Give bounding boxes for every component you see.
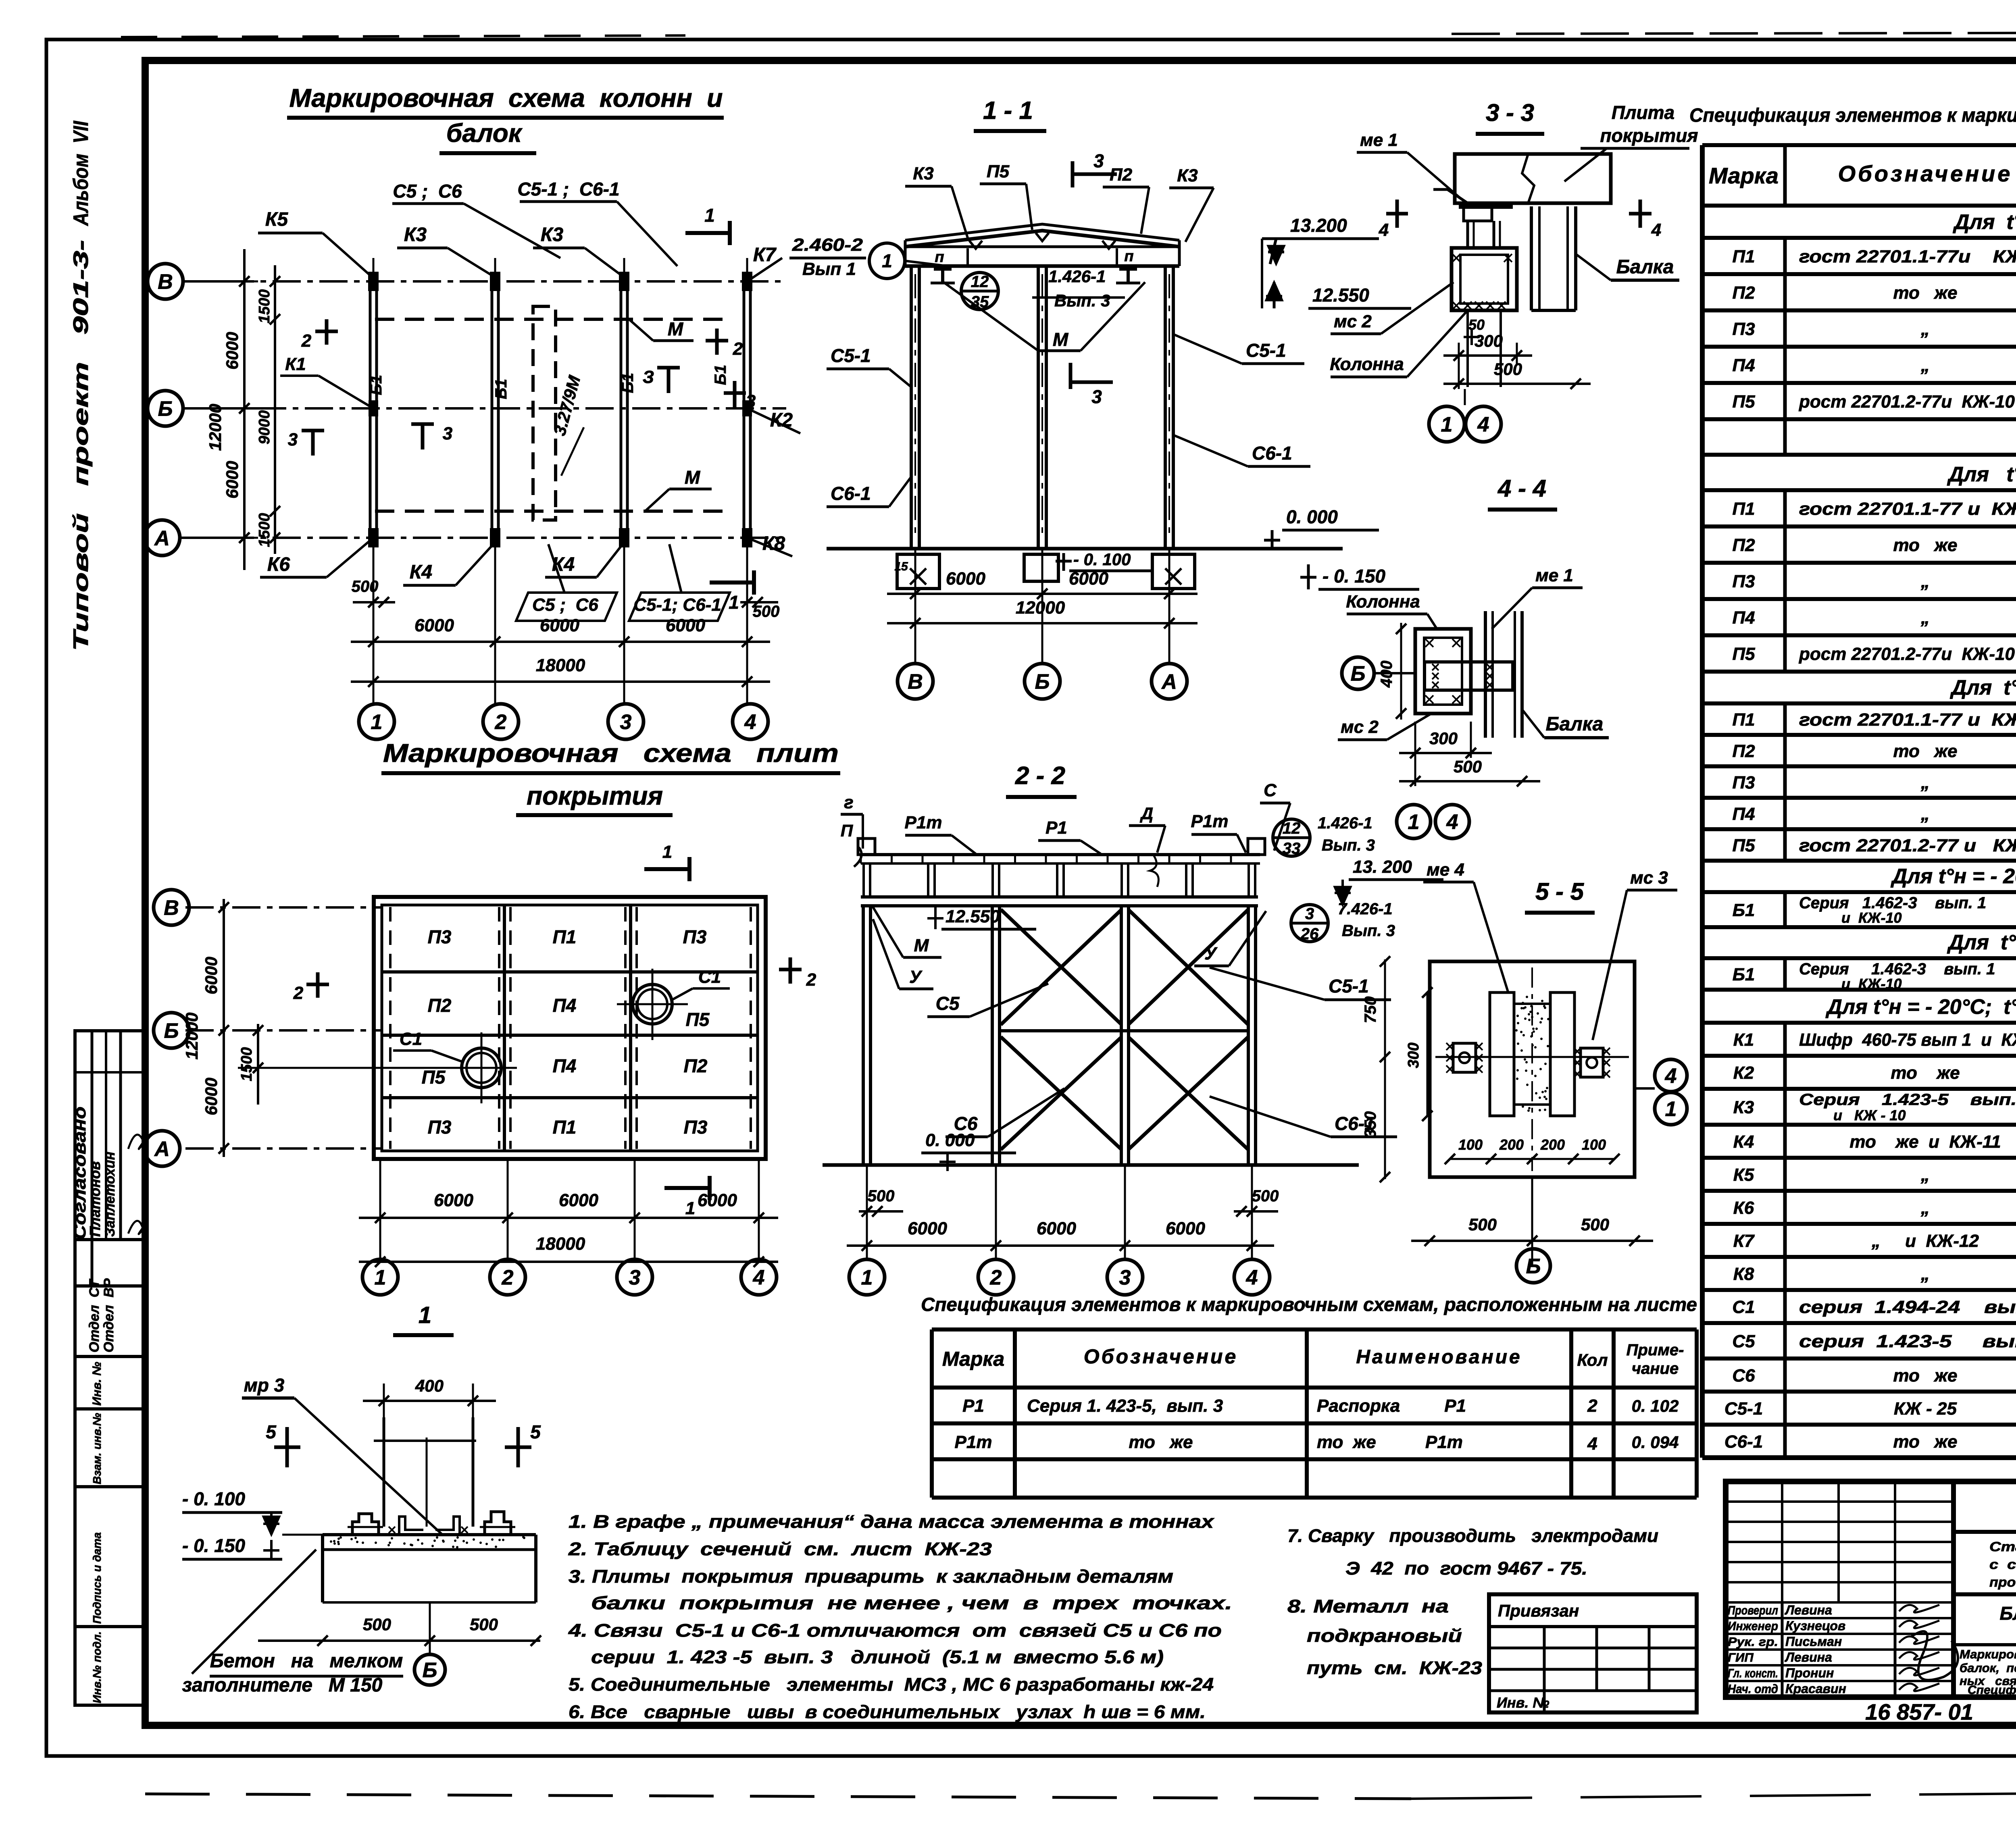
svg-text:Блок микрофильтров: Блок микрофильтров: [2000, 1603, 2016, 1624]
svg-text:К5: К5: [265, 209, 289, 230]
svg-text:Спецификация элементов к марки: Спецификация элементов к маркировочным с…: [1689, 105, 2016, 126]
svg-text:П3: П3: [428, 926, 452, 947]
svg-text:Письман: Письман: [1785, 1634, 1842, 1649]
svg-text:Серия 1. 423-5, вып. 3: Серия 1. 423-5, вып. 3: [1027, 1396, 1223, 1416]
svg-text:2 - 2: 2 - 2: [1015, 762, 1065, 790]
svg-text:3: 3: [1305, 905, 1314, 923]
svg-text:Гл. конст.: Гл. конст.: [1728, 1666, 1778, 1680]
svg-text:Д: Д: [1140, 804, 1153, 823]
svg-text:13.200: 13.200: [1290, 215, 1347, 236]
svg-text:серия 1.423-5 вып. 3: серия 1.423-5 вып. 3: [1799, 1332, 2016, 1351]
svg-text:13. 200: 13. 200: [1353, 857, 1412, 877]
svg-text:С5-1: С5-1: [831, 345, 871, 366]
svg-text:500: 500: [1252, 1187, 1279, 1205]
svg-text:П2: П2: [428, 995, 452, 1016]
svg-text:4: 4: [1587, 1434, 1597, 1454]
svg-text:4: 4: [1651, 220, 1661, 240]
svg-text:1: 1: [1665, 1098, 1677, 1121]
svg-text:12000: 12000: [1016, 598, 1065, 618]
svg-text:Для t°н = - 20°С; t°н = - 30°: Для t°н = - 20°С; t°н = - 30°С; t°н = - …: [1825, 995, 2016, 1019]
svg-text:3: 3: [1119, 1266, 1131, 1290]
svg-text:С6: С6: [1732, 1366, 1755, 1386]
svg-text:Колонна: Колонна: [1330, 354, 1404, 374]
svg-text:500: 500: [1494, 360, 1522, 379]
svg-text:300: 300: [1429, 729, 1458, 748]
svg-text:серии 1. 423 -5 вып. 3 дли: серии 1. 423 -5 вып. 3 длиной (5.1 м вме…: [591, 1647, 1164, 1667]
svg-text:К1: К1: [285, 354, 306, 374]
svg-text:П5: П5: [1732, 644, 1755, 664]
svg-text:У: У: [1204, 944, 1218, 963]
svg-text:Маркировочные схемы, колонн,: Маркировочные схемы, колонн,: [1960, 1647, 2016, 1661]
svg-text:А: А: [154, 527, 170, 550]
svg-text:производительностью 20 тыс. м: производительностью 20 тыс. м³/сутки с м…: [1989, 1575, 2016, 1590]
svg-text:Наименование: Наименование: [1356, 1346, 1522, 1368]
svg-text:2.460-2: 2.460-2: [792, 235, 863, 255]
svg-text:5 - 5: 5 - 5: [1535, 878, 1585, 905]
svg-text:2: 2: [293, 983, 304, 1003]
svg-text:„: „: [1920, 319, 1930, 339]
svg-text:П: П: [841, 821, 853, 840]
svg-text:К4: К4: [410, 562, 432, 583]
svg-text:26: 26: [1300, 925, 1319, 943]
svg-text:1: 1: [861, 1266, 873, 1290]
svg-text:С5-1 ; С6-1: С5-1 ; С6-1: [517, 179, 619, 200]
svg-text:то же: то же: [1893, 283, 1958, 303]
svg-text:0. 094: 0. 094: [1632, 1433, 1679, 1452]
svg-text:1: 1: [371, 711, 383, 734]
svg-text:Б: Б: [1526, 1255, 1541, 1278]
svg-text:то же: то же: [1129, 1432, 1193, 1452]
svg-text:К3: К3: [913, 164, 934, 183]
svg-text:12.550: 12.550: [1312, 285, 1369, 306]
svg-text:П1: П1: [553, 926, 577, 947]
svg-text:Обозначение: Обозначение: [1838, 161, 2013, 186]
svg-text:15: 15: [894, 560, 908, 573]
svg-text:Инв. №: Инв. №: [90, 1362, 104, 1406]
svg-text:Б1: Б1: [619, 373, 637, 393]
svg-text:6000: 6000: [946, 569, 985, 589]
svg-text:1500: 1500: [238, 1047, 255, 1082]
svg-text:1 - 1: 1 - 1: [983, 97, 1033, 125]
svg-text:мс 3: мс 3: [1630, 868, 1668, 888]
svg-text:П3: П3: [1732, 773, 1755, 793]
svg-text:Б1: Б1: [1733, 965, 1755, 984]
svg-text:Р1т: Р1т: [955, 1432, 992, 1452]
svg-text:рост 22701.2-77и КЖ-10: рост 22701.2-77и КЖ-10: [1799, 644, 2015, 664]
svg-text:1: 1: [662, 842, 672, 862]
svg-text:Шифр 460-75 вып 1 и КЖ-10: Шифр 460-75 вып 1 и КЖ-10: [1799, 1030, 2016, 1050]
svg-text:Красавин: Красавин: [1785, 1681, 1846, 1696]
svg-text:2: 2: [806, 970, 816, 990]
svg-text:300: 300: [1475, 331, 1503, 350]
svg-text:Инженер: Инженер: [1728, 1619, 1778, 1633]
svg-text:балок, подвесных путей, верт: балок, подвесных путей, вертикаль-: [1960, 1661, 2016, 1675]
svg-text:Вып. 3: Вып. 3: [1322, 836, 1375, 854]
svg-text:„ и КЖ-12: „ и КЖ-12: [1871, 1231, 1979, 1251]
svg-text:1: 1: [419, 1302, 431, 1328]
svg-text:„: „: [1920, 572, 1930, 591]
svg-text:А: А: [154, 1138, 170, 1161]
svg-text:6000: 6000: [666, 616, 705, 635]
svg-text:400: 400: [1378, 661, 1395, 688]
svg-text:4. Связи С5-1 и С6-1 отличают: 4. Связи С5-1 и С6-1 отличаются от связе…: [568, 1620, 1222, 1641]
svg-text:то же: то же: [1891, 1063, 1960, 1083]
svg-text:6000: 6000: [540, 616, 579, 635]
svg-text:п: п: [1124, 248, 1133, 265]
svg-text:6000: 6000: [908, 1219, 947, 1238]
svg-text:С1: С1: [698, 967, 721, 987]
svg-text:0. 000: 0. 000: [1286, 506, 1338, 527]
svg-text:6000: 6000: [1037, 1219, 1076, 1238]
svg-text:400: 400: [415, 1376, 444, 1395]
svg-text:Отдел СТ: Отдел СТ: [87, 1278, 102, 1352]
svg-text:гост 22701.1-77 и КЖ-10: гост 22701.1-77 и КЖ-10: [1799, 499, 2016, 519]
svg-text:К4: К4: [1733, 1132, 1754, 1152]
svg-text:Для t°н = - 40°С: Для t°н = - 40°С: [1947, 931, 2016, 954]
svg-text:Распорка Р1: Распорка Р1: [1317, 1396, 1466, 1416]
svg-text:Серия 1.423-5 вып. 1: Серия 1.423-5 вып. 1: [1799, 1091, 2016, 1109]
svg-text:4: 4: [753, 1266, 765, 1290]
svg-text:С5 ; С6: С5 ; С6: [393, 181, 462, 202]
svg-text:18000: 18000: [536, 655, 585, 675]
svg-text:- 0. 100: - 0. 100: [182, 1488, 245, 1509]
svg-text:2: 2: [301, 331, 312, 351]
svg-text:П4: П4: [553, 1055, 577, 1076]
svg-text:К6: К6: [267, 554, 290, 575]
svg-text:П3: П3: [684, 1117, 708, 1138]
svg-text:то же: то же: [1893, 1432, 1958, 1452]
svg-text:12000: 12000: [182, 1013, 201, 1060]
svg-text:4: 4: [1477, 413, 1489, 437]
svg-text:А: А: [1161, 670, 1177, 694]
svg-text:Типовой проект 901-3-: Типовой проект 901-3-: [69, 240, 93, 651]
svg-text:1.426-1: 1.426-1: [1318, 814, 1372, 832]
svg-text:Подпись и дата: Подпись и дата: [91, 1532, 103, 1624]
svg-text:П2: П2: [684, 1055, 708, 1076]
svg-text:33: 33: [1283, 840, 1301, 857]
svg-text:2: 2: [495, 711, 507, 734]
svg-text:П1: П1: [1732, 710, 1755, 730]
svg-text:С5-1: С5-1: [1246, 340, 1286, 361]
svg-text:У: У: [909, 967, 923, 987]
svg-text:то же Р1т: то же Р1т: [1317, 1432, 1463, 1452]
svg-text:Кол: Кол: [1577, 1350, 1608, 1369]
svg-text:Спецификация элементов к марки: Спецификация элементов к маркировочным с…: [921, 1294, 1697, 1315]
svg-text:чание: чание: [1632, 1360, 1679, 1377]
svg-text:Приме-: Приме-: [1627, 1341, 1684, 1359]
svg-text:П3: П3: [683, 926, 707, 947]
svg-text:С5-1: С5-1: [1329, 976, 1369, 997]
svg-text:В: В: [158, 270, 173, 294]
svg-text:Р1: Р1: [962, 1396, 984, 1416]
svg-text:Привязан: Привязан: [1498, 1601, 1579, 1620]
svg-text:1: 1: [882, 250, 892, 271]
svg-text:Бетон на мелком: Бетон на мелком: [210, 1650, 403, 1672]
svg-text:4: 4: [1246, 1266, 1258, 1290]
svg-text:С5-1: С5-1: [1724, 1399, 1763, 1419]
svg-text:Альбом VII: Альбом VII: [69, 121, 93, 227]
svg-text:500: 500: [363, 1615, 391, 1634]
svg-text:заполнителе М 150: заполнителе М 150: [182, 1675, 383, 1696]
svg-text:„: „: [1920, 1165, 1930, 1185]
svg-text:4 - 4: 4 - 4: [1497, 475, 1546, 502]
svg-text:1: 1: [685, 1198, 695, 1218]
svg-text:К3: К3: [541, 224, 564, 245]
svg-text:Заплетохин: Заплетохин: [102, 1152, 118, 1237]
svg-text:то же: то же: [1893, 1366, 1958, 1386]
svg-text:П3: П3: [1732, 572, 1755, 591]
svg-text:Р1: Р1: [1045, 818, 1067, 838]
svg-text:К1: К1: [1733, 1030, 1754, 1050]
svg-text:Б1: Б1: [367, 375, 385, 395]
svg-text:подкрановый: подкрановый: [1307, 1625, 1462, 1646]
svg-text:гост 22701.2-77 и КЖ-10: гост 22701.2-77 и КЖ-10: [1799, 836, 2016, 855]
svg-text:Инв. №: Инв. №: [1497, 1694, 1549, 1711]
svg-text:К3: К3: [404, 224, 427, 245]
svg-text:6. Все сварные швы в соед: 6. Все сварные швы в соединительных узла…: [569, 1702, 1206, 1722]
svg-text:3: 3: [443, 424, 452, 443]
svg-text:В: В: [164, 897, 179, 920]
svg-text:6000: 6000: [559, 1190, 598, 1210]
svg-text:Левина: Левина: [1785, 1603, 1832, 1617]
svg-text:П5: П5: [686, 1009, 710, 1030]
svg-text:гост 22701.1-77 и КЖ-10: гост 22701.1-77 и КЖ-10: [1799, 710, 2016, 730]
svg-text:- 0. 150: - 0. 150: [182, 1535, 245, 1556]
svg-text:6000: 6000: [1166, 1219, 1205, 1238]
svg-text:Б: Б: [1351, 662, 1366, 686]
svg-text:Согласовано: Согласовано: [70, 1107, 89, 1240]
svg-text:путь см. КЖ-23: путь см. КЖ-23: [1307, 1658, 1482, 1678]
svg-text:12000: 12000: [206, 404, 225, 451]
svg-text:Марка: Марка: [1709, 163, 1779, 188]
svg-text:П4: П4: [1732, 804, 1755, 824]
svg-text:„: „: [1920, 356, 1930, 375]
svg-text:1500: 1500: [256, 513, 273, 547]
svg-text:Нач. отд: Нач. отд: [1728, 1682, 1778, 1696]
svg-text:1: 1: [704, 205, 715, 226]
svg-text:Для t°н = - 40°С: Для t°н = - 40°С: [1950, 676, 2016, 699]
svg-text:и КЖ-10: и КЖ-10: [1841, 909, 1902, 926]
svg-text:покрытия: покрытия: [1600, 125, 1698, 146]
svg-text:3: 3: [288, 430, 298, 449]
svg-text:с содержанием взвешенных ве: с содержанием взвешенных веществ до 2500…: [1989, 1557, 2016, 1572]
svg-text:6000: 6000: [202, 1078, 221, 1115]
svg-text:С5: С5: [1732, 1332, 1755, 1351]
svg-text:Балка: Балка: [1616, 256, 1674, 278]
svg-text:1500: 1500: [256, 289, 273, 324]
svg-text:В: В: [908, 670, 923, 694]
svg-text:С6-1: С6-1: [831, 483, 871, 504]
svg-text:Обозначение: Обозначение: [1084, 1345, 1238, 1368]
svg-text:Вып 1: Вып 1: [802, 259, 856, 279]
svg-text:12: 12: [1283, 820, 1301, 837]
svg-text:Взам. инв.№: Взам. инв.№: [91, 1413, 103, 1484]
svg-text:Б: Б: [164, 1019, 179, 1043]
svg-text:500: 500: [1454, 757, 1482, 776]
svg-text:500: 500: [470, 1615, 498, 1634]
svg-text:Б: Б: [1035, 670, 1050, 694]
svg-text:С1: С1: [400, 1029, 422, 1049]
svg-text:„: „: [1920, 773, 1930, 793]
svg-text:6000: 6000: [414, 616, 454, 635]
svg-text:300: 300: [1405, 1042, 1422, 1068]
svg-text:К7: К7: [753, 244, 777, 266]
svg-text:„: „: [1920, 804, 1930, 824]
svg-text:500: 500: [868, 1187, 895, 1205]
svg-text:1.426-1: 1.426-1: [1048, 267, 1106, 286]
svg-text:750: 750: [1362, 997, 1379, 1024]
svg-text:Б: Б: [158, 397, 173, 421]
svg-text:6000: 6000: [434, 1190, 473, 1210]
svg-text:3 - 3: 3 - 3: [1486, 99, 1534, 126]
svg-text:100: 100: [1458, 1136, 1483, 1153]
svg-text:балки покрытия не менее , че: балки покрытия не менее , чем в трех точ…: [591, 1593, 1232, 1613]
svg-text:г: г: [844, 793, 853, 812]
svg-text:1: 1: [1408, 811, 1420, 834]
svg-text:8. Металл на: 8. Металл на: [1287, 1596, 1449, 1617]
svg-text:3: 3: [620, 711, 632, 734]
svg-text:гост 22701.1-77и КЖ-10: гост 22701.1-77и КЖ-10: [1799, 247, 2016, 266]
svg-text:7. Сварку производить элек: 7. Сварку производить электродами: [1287, 1525, 1658, 1546]
svg-text:Проверил: Проверил: [1728, 1603, 1778, 1617]
svg-text:Р1т: Р1т: [1191, 811, 1229, 831]
svg-text:2. Таблицу сечений см. лист: 2. Таблицу сечений см. лист КЖ-23: [568, 1539, 992, 1559]
svg-text:КЖ - 25: КЖ - 25: [1894, 1399, 1957, 1419]
svg-text:6000: 6000: [1069, 569, 1108, 589]
svg-text:К7: К7: [1733, 1231, 1755, 1251]
svg-text:П4: П4: [553, 995, 577, 1016]
svg-text:Отдел ВР: Отдел ВР: [101, 1278, 117, 1352]
svg-text:П5: П5: [1732, 392, 1755, 412]
svg-text:рост 22701.2-77и КЖ-10: рост 22701.2-77и КЖ-10: [1799, 392, 2015, 412]
svg-text:1: 1: [729, 592, 739, 613]
svg-text:Колонна: Колонна: [1346, 592, 1420, 612]
svg-text:„: „: [1920, 608, 1930, 628]
svg-text:Б1: Б1: [1733, 901, 1755, 920]
svg-text:С6-1: С6-1: [1252, 443, 1292, 464]
svg-text:6000: 6000: [223, 332, 242, 369]
svg-text:5. Соединительные элементы: 5. Соединительные элементы МС3 , МС 6 ра…: [569, 1674, 1214, 1695]
svg-text:серия 1.494-24 вып 1.: серия 1.494-24 вып 1.: [1799, 1297, 2016, 1317]
svg-text:П1: П1: [1732, 499, 1755, 519]
svg-text:Вып. 3: Вып. 3: [1054, 291, 1110, 310]
svg-text:П2: П2: [1732, 535, 1755, 555]
svg-text:мр 3: мр 3: [244, 1375, 285, 1396]
svg-text:4: 4: [1446, 811, 1458, 834]
svg-text:то же: то же: [1893, 535, 1958, 555]
svg-text:6000: 6000: [202, 957, 221, 994]
svg-text:- 0. 150: - 0. 150: [1322, 566, 1385, 587]
svg-text:200: 200: [1499, 1136, 1524, 1153]
svg-text:6000: 6000: [223, 461, 242, 498]
svg-text:К2: К2: [1733, 1063, 1754, 1083]
svg-text:Рук. гр.: Рук. гр.: [1728, 1635, 1778, 1649]
svg-text:4: 4: [1665, 1065, 1677, 1088]
svg-text:Для t°н = - 20°С; t°н = - 30°: Для t°н = - 20°С; t°н = - 30°С: [1891, 865, 2016, 888]
svg-text:Для t°н = - 30°С: Для t°н = - 30°С: [1947, 463, 2016, 486]
svg-text:Кузнецов: Кузнецов: [1785, 1619, 1845, 1633]
svg-text:ГИП: ГИП: [1728, 1650, 1754, 1664]
svg-text:4: 4: [744, 711, 756, 734]
svg-text:балок: балок: [446, 119, 523, 148]
svg-text:ме 4: ме 4: [1427, 860, 1464, 880]
svg-text:500: 500: [1468, 1215, 1497, 1234]
svg-text:Пронин: Пронин: [1785, 1666, 1834, 1680]
svg-text:П2: П2: [1110, 165, 1133, 185]
svg-text:К8: К8: [1733, 1264, 1754, 1284]
svg-text:5: 5: [530, 1421, 541, 1442]
svg-text:С6: С6: [954, 1113, 978, 1134]
svg-text:350: 350: [1362, 1111, 1379, 1138]
svg-text:мс 2: мс 2: [1341, 717, 1379, 737]
svg-text:500: 500: [1581, 1215, 1609, 1234]
svg-text:„: „: [1920, 1198, 1930, 1218]
svg-text:М: М: [668, 318, 684, 339]
svg-text:0. 102: 0. 102: [1632, 1396, 1679, 1415]
svg-text:Спецификация элементов.: Спецификация элементов.: [1968, 1683, 2016, 1697]
svg-text:Балка: Балка: [1546, 714, 1604, 735]
svg-text:то же и КЖ-11: то же и КЖ-11: [1849, 1132, 2001, 1152]
svg-text:мс 2: мс 2: [1334, 312, 1372, 331]
svg-text:Марка: Марка: [942, 1348, 1004, 1370]
svg-text:М: М: [914, 936, 929, 955]
svg-text:П1: П1: [553, 1117, 577, 1138]
svg-text:1: 1: [1441, 413, 1453, 437]
svg-text:п: п: [935, 249, 944, 266]
svg-text:К5: К5: [1733, 1165, 1754, 1185]
svg-text:18000: 18000: [536, 1234, 585, 1254]
svg-text:2: 2: [502, 1266, 514, 1290]
svg-text:3: 3: [1091, 386, 1102, 407]
svg-text:П4: П4: [1732, 608, 1755, 628]
svg-text:К3: К3: [1177, 166, 1198, 185]
svg-text:К3: К3: [1733, 1098, 1754, 1117]
svg-text:П5: П5: [422, 1067, 446, 1088]
svg-text:„: „: [1920, 1264, 1930, 1284]
svg-text:3: 3: [1093, 150, 1104, 171]
svg-text:Инв.№ подл.: Инв.№ подл.: [91, 1631, 103, 1703]
svg-text:С5-1; С6-1: С5-1; С6-1: [633, 595, 721, 615]
svg-text:Б1: Б1: [712, 365, 729, 385]
svg-text:П2: П2: [1732, 741, 1755, 761]
svg-text:С: С: [1264, 780, 1277, 800]
svg-text:2: 2: [1587, 1396, 1597, 1416]
svg-text:Платонов: Платонов: [87, 1161, 103, 1237]
svg-text:ме 1: ме 1: [1360, 130, 1398, 150]
svg-text:М: М: [685, 467, 701, 488]
svg-text:500: 500: [753, 603, 780, 620]
svg-text:П3: П3: [428, 1117, 452, 1138]
svg-text:Плита: Плита: [1612, 102, 1674, 123]
svg-text:100: 100: [1582, 1136, 1606, 1153]
svg-text:6000: 6000: [698, 1190, 737, 1210]
svg-text:К6: К6: [1733, 1198, 1754, 1218]
svg-text:200: 200: [1540, 1136, 1565, 1153]
svg-text:Р1т: Р1т: [905, 813, 942, 832]
svg-text:1: 1: [375, 1266, 386, 1290]
svg-text:12.550: 12.550: [946, 907, 1000, 926]
svg-text:П3: П3: [1732, 319, 1755, 339]
svg-text:П5: П5: [1732, 836, 1755, 855]
svg-text:П2: П2: [1732, 283, 1755, 303]
svg-text:П4: П4: [1732, 356, 1755, 375]
svg-text:М: М: [1053, 329, 1069, 350]
svg-text:З: З: [643, 367, 654, 387]
svg-text:500: 500: [352, 578, 379, 595]
svg-text:Э 42 по гост 9467 - 75.: Э 42 по гост 9467 - 75.: [1345, 1558, 1587, 1579]
svg-text:2: 2: [990, 1266, 1002, 1290]
svg-text:3: 3: [629, 1266, 641, 1290]
